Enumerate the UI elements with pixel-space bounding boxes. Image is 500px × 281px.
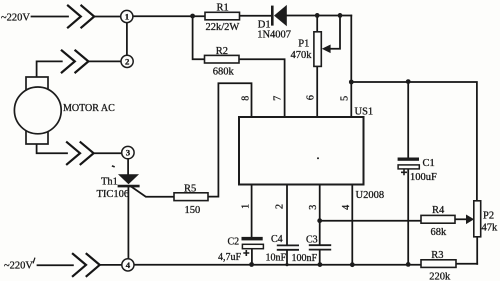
svg-text:U2008: U2008 <box>356 190 385 201</box>
svg-text:2: 2 <box>275 204 286 209</box>
svg-text:47k: 47k <box>482 223 499 234</box>
svg-text:6: 6 <box>306 95 317 100</box>
svg-text:7: 7 <box>272 96 283 101</box>
svg-text:8: 8 <box>241 96 252 101</box>
svg-text:1: 1 <box>241 204 252 209</box>
svg-text:1: 1 <box>125 12 129 22</box>
svg-text:680k: 680k <box>213 67 235 78</box>
svg-text:P2: P2 <box>483 210 494 221</box>
svg-text:100nF: 100nF <box>292 253 318 264</box>
svg-text:3: 3 <box>308 205 319 210</box>
svg-text:220k: 220k <box>429 272 451 281</box>
svg-text:MOTOR AC: MOTOR AC <box>63 103 115 114</box>
svg-text:150: 150 <box>185 205 201 216</box>
svg-text:10nF: 10nF <box>266 252 287 263</box>
svg-text:R1: R1 <box>217 2 229 13</box>
svg-text:TIC106: TIC106 <box>97 189 130 200</box>
svg-text:1N4007: 1N4007 <box>257 30 291 41</box>
svg-text:P1: P1 <box>298 39 309 50</box>
svg-text:C4: C4 <box>271 234 283 245</box>
svg-text:22k/2W: 22k/2W <box>206 22 240 33</box>
svg-text:100uF: 100uF <box>410 172 437 183</box>
svg-text:C2: C2 <box>228 237 240 248</box>
svg-text:470k: 470k <box>291 50 313 61</box>
svg-text:~220V: ~220V <box>4 260 33 271</box>
svg-text:4,7uF: 4,7uF <box>218 252 242 263</box>
svg-text:R2: R2 <box>216 46 228 57</box>
svg-text:68k: 68k <box>431 227 448 238</box>
svg-text:~220V: ~220V <box>1 12 30 23</box>
svg-text:R3: R3 <box>431 250 443 261</box>
svg-text:2: 2 <box>125 57 130 67</box>
svg-text:4: 4 <box>126 260 131 270</box>
svg-text:Th1: Th1 <box>101 176 118 187</box>
svg-text:C1: C1 <box>423 158 435 169</box>
svg-text:5: 5 <box>339 96 350 101</box>
svg-text:C3: C3 <box>306 234 318 245</box>
svg-text:US1: US1 <box>355 107 374 118</box>
svg-text:R4: R4 <box>432 205 445 216</box>
svg-text:4: 4 <box>341 205 352 210</box>
svg-text:3: 3 <box>126 148 131 158</box>
svg-text:R5: R5 <box>184 184 196 195</box>
